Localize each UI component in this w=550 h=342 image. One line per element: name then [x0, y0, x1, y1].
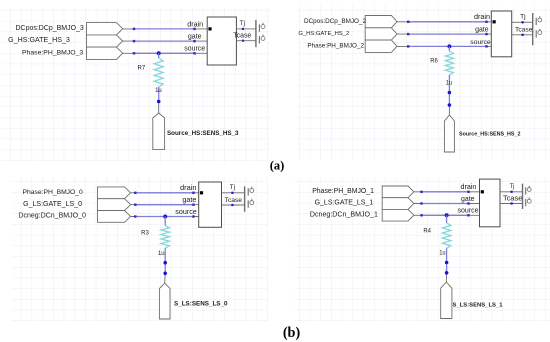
svg-text:source: source	[470, 39, 491, 46]
svg-text:Phase:PH_BMJO_2: Phase:PH_BMJO_2	[307, 43, 364, 50]
wire resistor to sense tag	[158, 87, 160, 113]
wire source to resistor	[158, 53, 160, 58]
svg-text:G_LS:GATE_LS_0: G_LS:GATE_LS_0	[23, 201, 82, 208]
svg-text:G_LS:GATE_LS_1: G_LS:GATE_LS_1	[315, 200, 374, 207]
wire source net	[131, 215, 199, 217]
svg-text:drain: drain	[187, 19, 203, 28]
node dot 2	[163, 272, 167, 276]
thermal probe symbol 1	[536, 16, 542, 25]
schematic quadrant BR	[294, 177, 550, 322]
svg-text:gate: gate	[475, 27, 489, 34]
pin Tcase wire	[500, 193, 523, 204]
svg-text:Tj: Tj	[520, 14, 526, 21]
svg-text:Source_HS:SENS_HS_2: Source_HS:SENS_HS_2	[459, 132, 521, 138]
svg-text:Source_HS:SENS_HS_3: Source_HS:SENS_HS_3	[167, 130, 239, 137]
junction node on source net	[447, 44, 451, 48]
wire drain net	[131, 192, 199, 194]
thermal bus bar	[244, 186, 246, 211]
node dot 1	[445, 261, 449, 265]
node dot 1	[157, 100, 161, 104]
resistor R6	[430, 51, 453, 75]
sense port tag Source_HS:SENS_HS_3	[153, 113, 239, 150]
svg-text:(b): (b)	[283, 325, 301, 341]
port tag G_HS:GATE_HS_2	[298, 28, 397, 40]
svg-text:G_HS:GATE_HS_2: G_HS:GATE_HS_2	[298, 31, 349, 37]
junction node on source net	[157, 51, 161, 55]
sense port tag S_LS:SENS_LS_1	[441, 282, 504, 319]
node dot 2	[445, 271, 449, 275]
svg-text:drain: drain	[461, 183, 477, 191]
svg-text:Tcase: Tcase	[503, 193, 522, 202]
wire resistor to sense tag	[445, 248, 447, 282]
node dot 1	[163, 261, 167, 265]
svg-text:Phase:PH_BMJO_0: Phase:PH_BMJO_0	[23, 189, 83, 196]
thermal probe symbol 2	[248, 199, 254, 208]
node dot 2	[448, 103, 452, 107]
wire gate net	[397, 33, 491, 35]
port tag Dcneg:DCn_BMJO_1	[310, 209, 414, 221]
wire source net	[123, 52, 208, 54]
svg-text:1u: 1u	[439, 250, 446, 257]
svg-text:R6: R6	[430, 58, 438, 65]
thermal bus bar	[522, 184, 524, 209]
schematic quadrant TL	[2, 7, 270, 163]
wire drain net	[414, 191, 480, 193]
thermal bus bar	[532, 13, 534, 45]
svg-text:Dcneg:DCn_BMJO_1: Dcneg:DCn_BMJO_1	[310, 211, 378, 218]
port tag Phase:PH_BMJO_0	[23, 187, 131, 199]
MOSFET thermal model block U_TL	[207, 17, 236, 65]
thermal probe symbol 1	[259, 23, 265, 32]
thermal probe symbol 1	[248, 187, 254, 196]
wire gate net	[131, 204, 199, 206]
resistor R3	[141, 226, 169, 249]
wire source to resistor	[446, 215, 448, 223]
wire source to resistor	[448, 46, 450, 51]
svg-text:S_LS:SENS_LS_0: S_LS:SENS_LS_0	[174, 301, 228, 308]
svg-text:Tj: Tj	[230, 184, 235, 191]
pin Tj wire	[222, 184, 245, 194]
svg-text:Phase:PH_BMJO_1: Phase:PH_BMJO_1	[312, 188, 374, 195]
svg-text:DCpos:DCp_BMJO_3: DCpos:DCp_BMJO_3	[16, 25, 84, 32]
resistor R4	[423, 223, 450, 248]
svg-text:Tcase: Tcase	[225, 197, 243, 204]
svg-text:Tcase: Tcase	[515, 27, 533, 34]
svg-text:drain: drain	[474, 12, 490, 21]
node dot 1	[448, 91, 452, 95]
port tag G_LS:GATE_LS_1	[315, 198, 414, 210]
wire gate net	[123, 40, 208, 42]
pin Tj wire	[236, 20, 256, 30]
svg-text:1u: 1u	[158, 250, 165, 257]
port tag Phase:PH_BMJO_3	[22, 47, 123, 59]
wire source to resistor	[164, 217, 166, 226]
svg-text:gate: gate	[461, 196, 475, 203]
junction node on source net	[445, 213, 449, 217]
sense port tag Source_HS:SENS_HS_2	[444, 115, 520, 152]
pin Tj wire	[512, 14, 533, 24]
schematic quadrant BL	[12, 177, 268, 322]
port tag DCpos:DCp_BMJO_3	[16, 23, 123, 35]
wire drain net	[123, 28, 208, 30]
wire drain net	[397, 21, 491, 23]
port tag G_LS:GATE_LS_0	[23, 199, 131, 211]
thermal probe symbol 2	[259, 35, 265, 44]
svg-text:source: source	[175, 208, 197, 216]
svg-text:(a): (a)	[270, 159, 285, 173]
svg-text:Phase:PH_BMJO_3: Phase:PH_BMJO_3	[22, 49, 83, 56]
svg-text:gate: gate	[182, 195, 196, 204]
MOSFET thermal model block U_TR	[491, 11, 511, 57]
svg-text:G_HS:GATE_HS_3: G_HS:GATE_HS_3	[8, 36, 70, 44]
svg-text:R4: R4	[423, 228, 431, 235]
thermal probe symbol 2	[526, 197, 531, 206]
svg-text:DCpos:DCp_BMJO_2: DCpos:DCp_BMJO_2	[304, 18, 366, 25]
pin Tcase wire	[512, 27, 533, 36]
svg-text:drain: drain	[180, 183, 197, 192]
resistor R7	[138, 58, 164, 87]
pin Tcase wire	[222, 197, 245, 206]
wire source net	[414, 214, 480, 216]
svg-text:Tj: Tj	[240, 20, 245, 27]
pin Tcase wire	[233, 33, 256, 42]
svg-text:source: source	[184, 46, 205, 53]
schematic quadrant TR	[298, 5, 550, 160]
sense port tag S_LS:SENS_LS_0	[159, 283, 228, 319]
svg-text:R7: R7	[138, 65, 146, 72]
thermal probe symbol 2	[536, 29, 542, 38]
wire resistor to sense tag	[164, 248, 167, 283]
port tag Phase:PH_BMJO_1	[312, 186, 414, 198]
svg-text:Tcase: Tcase	[233, 33, 251, 40]
port tag DCpos:DCp_BMJO_2	[304, 16, 397, 28]
svg-text:R3: R3	[141, 230, 149, 237]
MOSFET thermal model block U_BL	[199, 182, 222, 227]
pin Tj wire	[500, 183, 523, 193]
port tag Dcneg:DCn_BMJO_0	[18, 211, 130, 223]
svg-text:Tj: Tj	[510, 183, 515, 190]
svg-text:1u: 1u	[446, 80, 453, 87]
svg-text:Dcneg:DCn_BMJO_0: Dcneg:DCn_BMJO_0	[18, 213, 86, 220]
svg-text:S_LS:SENS_LS_1: S_LS:SENS_LS_1	[453, 302, 504, 308]
port tag Phase:PH_BMJO_2	[307, 40, 397, 52]
svg-text:gate: gate	[188, 34, 202, 41]
junction node on source net	[163, 215, 167, 219]
MOSFET thermal model block U_BR	[480, 179, 501, 227]
svg-text:1u: 1u	[155, 87, 162, 94]
wire resistor to sense tag	[448, 75, 450, 115]
thermal bus bar	[255, 20, 257, 47]
svg-text:source: source	[458, 208, 479, 215]
port tag G_HS:GATE_HS_3	[8, 35, 123, 47]
thermal probe symbol 1	[526, 186, 531, 195]
wire gate net	[414, 202, 480, 204]
wire source net	[397, 45, 491, 47]
